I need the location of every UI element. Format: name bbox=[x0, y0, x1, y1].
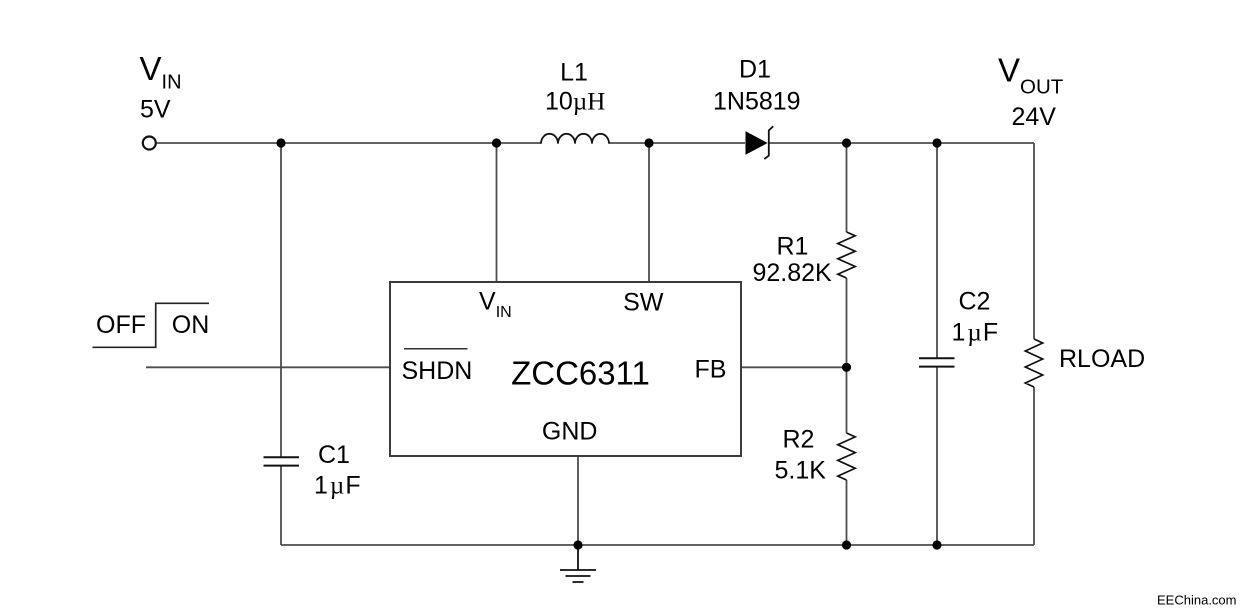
svg-text:L1: L1 bbox=[560, 59, 588, 87]
svg-text:C1: C1 bbox=[318, 441, 350, 469]
svg-text:GND: GND bbox=[542, 418, 598, 446]
svg-text:D1: D1 bbox=[739, 56, 771, 84]
svg-text:10µH: 10µH bbox=[545, 88, 605, 116]
svg-text:OFF: OFF bbox=[96, 311, 146, 339]
svg-text:VOUT: VOUT bbox=[998, 52, 1064, 99]
svg-text:ZCC6311: ZCC6311 bbox=[511, 355, 650, 392]
svg-text:1µF: 1µF bbox=[314, 472, 361, 500]
svg-text:5V: 5V bbox=[140, 96, 171, 124]
svg-text:SW: SW bbox=[623, 289, 664, 317]
svg-text:1µF: 1µF bbox=[952, 319, 999, 347]
svg-text:SHDN: SHDN bbox=[402, 357, 473, 385]
svg-text:RLOAD: RLOAD bbox=[1059, 345, 1145, 373]
svg-text:C2: C2 bbox=[959, 288, 991, 316]
svg-text:R2: R2 bbox=[783, 426, 815, 454]
svg-text:EEChina.com: EEChina.com bbox=[1157, 593, 1236, 608]
svg-text:92.82K: 92.82K bbox=[753, 259, 833, 287]
svg-text:24V: 24V bbox=[1012, 103, 1057, 131]
svg-text:1N5819: 1N5819 bbox=[713, 88, 801, 116]
svg-text:VIN: VIN bbox=[140, 50, 182, 94]
svg-text:R1: R1 bbox=[777, 233, 809, 261]
svg-text:5.1K: 5.1K bbox=[775, 457, 827, 485]
svg-text:FB: FB bbox=[695, 356, 727, 384]
svg-text:ON: ON bbox=[172, 311, 210, 339]
